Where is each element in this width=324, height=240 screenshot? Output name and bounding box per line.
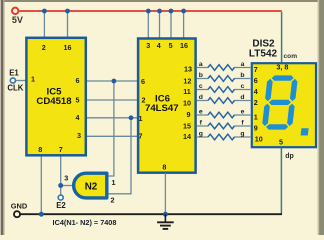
- wire: dp drop from display to ground rail (teal): [280, 148, 282, 214]
- svg-text:2: 2: [42, 43, 46, 52]
- svg-text:5: 5: [279, 138, 283, 147]
- svg-text:3, 8: 3, 8: [276, 62, 288, 71]
- svg-text:E2: E2: [56, 201, 66, 210]
- svg-text:b: b: [199, 72, 203, 79]
- wire: IC5.4 to IC6.1: [86, 117, 138, 119]
- junction rail-IC5.16: [65, 9, 70, 14]
- svg-text:CLK: CLK: [7, 84, 23, 93]
- junction rail-IC6.16: [181, 9, 186, 14]
- svg-text:2: 2: [142, 95, 146, 104]
- svg-text:74LS47: 74LS47: [145, 103, 179, 114]
- resistor d: [208, 98, 234, 104]
- wire: branch to N2 pin1: [108, 81, 114, 176]
- svg-text:6: 6: [254, 76, 258, 85]
- wire: IC6 pin5 to rail: [170, 11, 172, 38]
- svg-text:CD4518: CD4518: [36, 96, 72, 107]
- segment letters right column: [240, 61, 244, 138]
- resistor c: [208, 87, 234, 93]
- IC6 74LS47: [138, 39, 196, 173]
- resistor b: [208, 76, 234, 82]
- wire: com drop from rail to display top (teal): [281, 12, 283, 63]
- svg-text:8: 8: [38, 145, 42, 154]
- wire: branch to N2 pin2: [108, 118, 132, 194]
- svg-text:3: 3: [146, 41, 150, 50]
- wire: IC5.7 down to N2 output node: [60, 156, 62, 196]
- wire: IC6.8 down to ground: [164, 173, 166, 214]
- junction rail-IC6.5: [169, 9, 174, 14]
- segment b: [290, 79, 298, 101]
- wire: IC6 pin3 to rail: [147, 11, 149, 38]
- resistor g lead wires: [197, 136, 250, 138]
- svg-text:e: e: [199, 109, 203, 116]
- wire: IC5.3 to IC6.7: [86, 135, 138, 137]
- DIS2 LT542 label: [249, 39, 278, 60]
- E2 terminal: [56, 195, 66, 210]
- svg-text:g: g: [199, 131, 203, 138]
- IC5 CD4518: [26, 38, 85, 156]
- resistor f: [208, 123, 234, 129]
- svg-text:15: 15: [183, 121, 191, 130]
- svg-text:3: 3: [64, 173, 68, 182]
- svg-text:2: 2: [254, 98, 258, 107]
- svg-text:a: a: [241, 61, 245, 68]
- wire: IC5.8 down to ground rail: [40, 156, 42, 215]
- junction IC5.8-gnd: [39, 212, 44, 217]
- svg-text:1: 1: [139, 114, 143, 123]
- ground rail wire (black): [20, 213, 282, 215]
- svg-text:c: c: [241, 83, 245, 90]
- N2 AND gate (7408): [64, 173, 115, 204]
- segment e: [262, 104, 270, 126]
- svg-text:E1: E1: [9, 68, 19, 77]
- resistor b lead wires: [197, 78, 250, 80]
- svg-text:1: 1: [112, 178, 116, 187]
- segment letters left column: [199, 61, 203, 138]
- wire: IC5 pin2 to rail: [43, 11, 45, 38]
- svg-text:d: d: [240, 94, 244, 101]
- svg-text:LT542: LT542: [249, 49, 278, 60]
- junction rail-IC6.3: [146, 9, 151, 14]
- wire: IC5.5 to IC6.2: [86, 99, 138, 101]
- decimal point: [301, 128, 309, 135]
- wire: 5V rail (red): [18, 10, 281, 12]
- 5V terminal: [12, 8, 18, 14]
- svg-text:7: 7: [59, 145, 63, 154]
- svg-text:6: 6: [141, 77, 145, 86]
- svg-text:dp: dp: [285, 153, 294, 160]
- svg-text:4: 4: [76, 113, 80, 122]
- wire: IC5 pin16 to rail: [67, 11, 69, 38]
- resistor g: [208, 134, 234, 140]
- svg-text:d: d: [199, 94, 203, 101]
- resistor a: [208, 65, 234, 71]
- resistor c lead wires: [197, 89, 250, 91]
- GND terminal and ground rail: [11, 201, 282, 217]
- svg-text:5: 5: [169, 41, 173, 50]
- svg-text:1: 1: [31, 75, 35, 84]
- svg-text:4: 4: [157, 41, 161, 50]
- resistor a lead wires: [197, 67, 250, 69]
- segment g: [269, 100, 292, 105]
- 7-segment digit 8: [261, 75, 315, 135]
- junction N2.1 branch: [112, 79, 117, 84]
- svg-text:11: 11: [183, 87, 191, 96]
- svg-text:N2: N2: [85, 182, 98, 193]
- svg-text:6: 6: [76, 76, 80, 85]
- svg-text:5V: 5V: [12, 15, 23, 25]
- segment a: [271, 75, 294, 80]
- svg-text:10: 10: [183, 99, 191, 108]
- wire: IC6 pin4 to rail: [159, 11, 161, 38]
- svg-text:10: 10: [255, 134, 263, 143]
- junction IC6.8-gnd: [163, 212, 168, 217]
- ground symbol: [157, 214, 174, 229]
- E1 CLK input terminal: [7, 68, 26, 92]
- svg-text:7: 7: [139, 132, 143, 141]
- svg-text:b: b: [240, 72, 244, 79]
- segment f: [265, 79, 273, 101]
- segment c: [287, 104, 295, 126]
- svg-text:e: e: [241, 109, 245, 116]
- svg-text:16: 16: [64, 43, 72, 52]
- svg-text:3: 3: [77, 131, 81, 140]
- svg-text:4: 4: [254, 87, 258, 96]
- svg-text:2: 2: [111, 195, 115, 204]
- junction N2.2 branch: [129, 115, 134, 120]
- resistor e lead wires: [197, 114, 250, 116]
- resistor d lead wires: [197, 100, 250, 102]
- svg-text:1: 1: [254, 112, 258, 121]
- svg-text:a: a: [199, 61, 203, 68]
- svg-text:9: 9: [187, 110, 191, 119]
- wire: IC6 pin16 to rail: [183, 11, 185, 38]
- svg-text:16: 16: [180, 41, 188, 50]
- svg-text:9: 9: [254, 123, 258, 132]
- svg-text:5: 5: [76, 95, 80, 104]
- junction N2 output node: [58, 183, 63, 188]
- svg-text:8: 8: [162, 163, 166, 172]
- svg-text:g: g: [240, 131, 244, 138]
- segment d: [266, 124, 289, 129]
- svg-text:13: 13: [184, 64, 192, 73]
- wire: N2 output to node: [61, 185, 73, 187]
- resistor network a-g: [197, 65, 250, 140]
- resistor f lead wires: [197, 125, 250, 127]
- wire: IC5.6 to IC6.6: [86, 80, 138, 82]
- display DIS2 box: [252, 62, 316, 147]
- svg-text:12: 12: [183, 77, 191, 86]
- svg-text:7: 7: [254, 65, 258, 74]
- junction rail-IC5.2: [42, 9, 47, 14]
- svg-text:GND: GND: [11, 201, 28, 210]
- svg-text:IC4(N1- N2) = 7408: IC4(N1- N2) = 7408: [53, 218, 117, 227]
- resistor e: [208, 112, 234, 118]
- svg-text:c: c: [199, 83, 203, 90]
- svg-text:14: 14: [183, 132, 191, 141]
- svg-text:com: com: [284, 53, 298, 60]
- junction rail-IC6.4: [157, 9, 162, 14]
